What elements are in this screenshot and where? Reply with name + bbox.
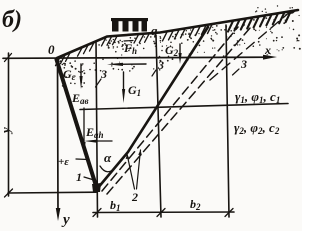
- svg-text:b2: b2: [190, 197, 201, 212]
- wall (thick line 1): [57, 60, 98, 190]
- svg-text:Eаh: Eаh: [85, 125, 104, 140]
- vertical section line V1: [96, 41, 98, 217]
- svg-text:2: 2: [131, 190, 138, 204]
- svg-text:Fh: Fh: [123, 41, 137, 56]
- leaders 2: [127, 150, 141, 189]
- dim slash middle: [157, 209, 165, 217]
- left dimension slash top: [5, 54, 12, 62]
- svg-text:x: x: [264, 43, 271, 57]
- svg-text:3: 3: [240, 57, 247, 71]
- surface hatch ticks: [56, 12, 291, 66]
- leader 3a: [96, 79, 102, 87]
- svg-text:q: q: [151, 23, 158, 38]
- svg-text:у: у: [61, 212, 70, 228]
- svg-text:b1: b1: [110, 198, 121, 213]
- vertical section line V2: [156, 35, 161, 217]
- force Fh label with overbar: [124, 40, 133, 43]
- svg-text:3: 3: [157, 58, 164, 72]
- svg-text:Gε: Gε: [63, 67, 76, 82]
- dim slash right: [225, 209, 233, 217]
- Eah arrow: [92, 140, 112, 142]
- svg-text:G2: G2: [165, 43, 179, 58]
- svg-text:0: 0: [48, 42, 55, 57]
- svg-text:G1: G1: [128, 83, 141, 98]
- leader 3c: [233, 69, 240, 75]
- x-axis: [3, 57, 269, 58]
- svg-text:γ1, φ1, c1: γ1, φ1, c1: [235, 89, 280, 105]
- leader 3b: [152, 70, 156, 76]
- y-axis arrowhead: [56, 208, 61, 221]
- dashed slip line B: [107, 28, 250, 194]
- dim slash left: [93, 209, 101, 217]
- layer boundary line: [80, 104, 288, 110]
- svg-text:γ2, φ2, c2: γ2, φ2, c2: [234, 120, 280, 136]
- dashed slip line A: [102, 27, 238, 191]
- svg-text:Eав: Eав: [71, 91, 89, 106]
- force G1 arrow: [123, 72, 125, 92]
- left dimension slash bottom: [5, 189, 13, 197]
- x-axis arrowhead: [263, 55, 277, 60]
- left dimension vertical: [8, 53, 10, 196]
- slope line end wedge: [284, 9, 298, 15]
- svg-text:б): б): [2, 7, 22, 33]
- leader 1: [84, 177, 94, 180]
- load block bar: [111, 18, 148, 21]
- force Fh arrow: [116, 63, 146, 65]
- svg-text:у: у: [0, 127, 13, 135]
- svg-text:α: α: [104, 150, 112, 165]
- load block posts: [112, 21, 147, 32]
- stipple dots cluster near wall and load: [61, 26, 233, 87]
- stipple dots (soil texture): [59, 5, 300, 87]
- ground surface polyline: [57, 10, 298, 58]
- bottom dimension line: [93, 211, 234, 214]
- vertical section line V3: [226, 25, 229, 217]
- slip plane thick line: [97, 27, 208, 189]
- Eav arrow: [83, 108, 85, 145]
- bottom-left horizontal line (wall base level): [8, 191, 96, 194]
- svg-text:1: 1: [76, 170, 82, 184]
- svg-text:+ε: +ε: [58, 156, 69, 168]
- wall bottom junction blob: [92, 183, 101, 192]
- force Gв arrow: [80, 64, 82, 78]
- force G2 arrow: [179, 44, 181, 55]
- dashed shallow line near corner: [210, 11, 291, 80]
- y-axis: [57, 60, 60, 214]
- α arc: [100, 166, 116, 172]
- ε tick: [76, 158, 88, 161]
